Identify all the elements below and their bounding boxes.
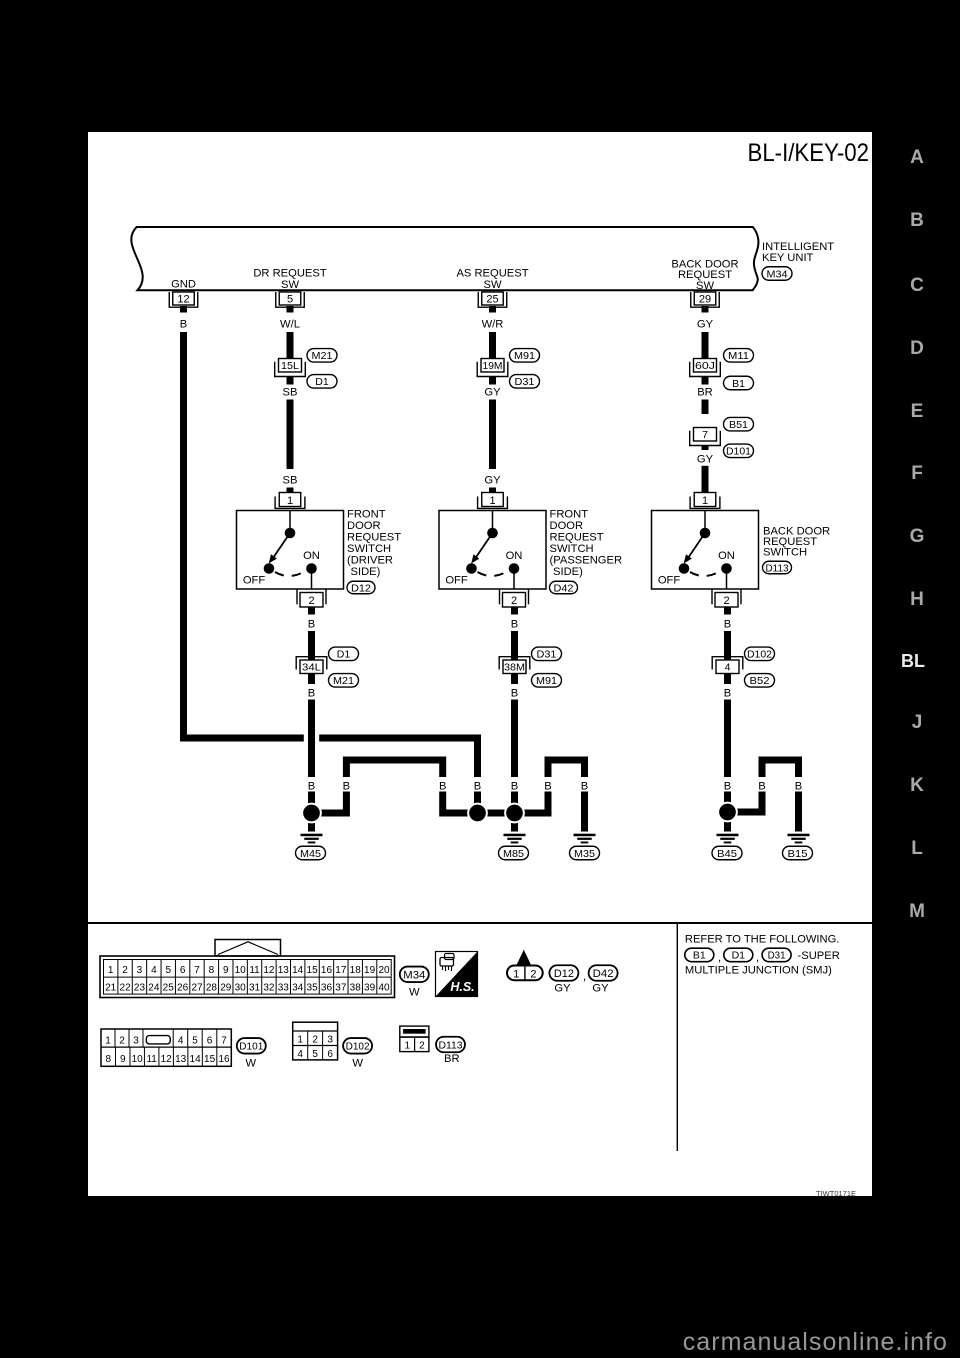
svg-text:BR: BR: [444, 1053, 460, 1065]
svg-text:2: 2: [312, 1035, 318, 1046]
svg-text:D12: D12: [554, 968, 574, 980]
svg-text:2: 2: [122, 965, 128, 976]
svg-text:15L: 15L: [281, 360, 299, 372]
svg-text:GY: GY: [484, 387, 501, 399]
svg-text:25: 25: [486, 293, 498, 305]
svg-text:B1: B1: [732, 378, 745, 390]
svg-text:D101: D101: [239, 1041, 263, 1053]
svg-text:25: 25: [163, 983, 175, 994]
svg-text:INTELLIGENT: INTELLIGENT: [762, 241, 834, 253]
svg-text:14: 14: [292, 965, 304, 976]
svg-text:TIWT0171E: TIWT0171E: [816, 1189, 856, 1196]
svg-text:DOOR: DOOR: [347, 520, 381, 532]
svg-text:9: 9: [120, 1054, 126, 1065]
svg-text:12: 12: [177, 293, 189, 305]
svg-text:M21: M21: [333, 675, 354, 687]
svg-text:1: 1: [702, 495, 708, 507]
svg-text:OFF: OFF: [658, 575, 681, 587]
svg-text:34: 34: [292, 983, 304, 994]
svg-text:15: 15: [204, 1054, 216, 1065]
svg-text:D31: D31: [768, 950, 786, 962]
svg-text:DR REQUEST: DR REQUEST: [253, 268, 327, 280]
svg-text:20: 20: [378, 965, 390, 976]
svg-text:2: 2: [511, 595, 517, 607]
svg-text:M34: M34: [767, 268, 788, 280]
svg-text:B: B: [724, 687, 731, 699]
svg-text:W: W: [352, 1058, 363, 1070]
svg-text:29: 29: [220, 983, 232, 994]
svg-text:M21: M21: [312, 350, 333, 362]
svg-text:33: 33: [278, 983, 290, 994]
svg-text:,: ,: [583, 969, 586, 983]
svg-text:2: 2: [119, 1036, 125, 1047]
svg-text:12: 12: [263, 965, 275, 976]
svg-text:D1: D1: [337, 649, 351, 661]
svg-text:23: 23: [134, 983, 146, 994]
svg-text:11: 11: [249, 965, 260, 976]
svg-text:1: 1: [108, 965, 114, 976]
svg-text:11: 11: [146, 1054, 157, 1065]
svg-text:1: 1: [287, 495, 293, 507]
svg-text:17: 17: [335, 965, 347, 976]
svg-text:5: 5: [192, 1036, 198, 1047]
svg-text:B52: B52: [750, 675, 770, 687]
svg-text:5: 5: [165, 965, 171, 976]
svg-text:GY: GY: [697, 319, 714, 331]
svg-text:GY: GY: [697, 453, 714, 465]
svg-text:SW: SW: [696, 280, 714, 292]
svg-text:9: 9: [223, 965, 229, 976]
svg-text:2: 2: [530, 968, 536, 980]
svg-text:REFER TO THE FOLLOWING.: REFER TO THE FOLLOWING.: [685, 933, 840, 945]
svg-text:B: B: [724, 781, 731, 793]
svg-text:2: 2: [419, 1041, 425, 1052]
svg-text:4: 4: [151, 965, 157, 976]
svg-text:60J: 60J: [695, 360, 715, 372]
svg-text:37: 37: [335, 983, 347, 994]
svg-text:GND: GND: [171, 279, 196, 291]
svg-text:D42: D42: [554, 582, 574, 594]
svg-text:B1: B1: [693, 950, 706, 962]
svg-text:DOOR: DOOR: [550, 520, 584, 532]
svg-text:13: 13: [278, 965, 290, 976]
svg-text:34L: 34L: [302, 661, 321, 673]
svg-text:REQUEST: REQUEST: [550, 532, 604, 544]
svg-text:SB: SB: [283, 387, 298, 399]
svg-text:OFF: OFF: [243, 575, 266, 587]
svg-text:SIDE): SIDE): [351, 566, 381, 578]
svg-text:BL-I/KEY-02: BL-I/KEY-02: [748, 139, 870, 167]
svg-text:B: B: [308, 687, 315, 699]
svg-text:15: 15: [307, 965, 319, 976]
svg-text:AS REQUEST: AS REQUEST: [456, 268, 528, 280]
svg-text:36: 36: [321, 983, 333, 994]
svg-text:1: 1: [489, 495, 495, 507]
svg-text:W/L: W/L: [280, 319, 300, 331]
svg-text:B: B: [180, 319, 187, 331]
svg-text:REQUEST: REQUEST: [347, 532, 401, 544]
svg-text:38M: 38M: [504, 661, 525, 673]
svg-text:B: B: [511, 687, 518, 699]
svg-text:3: 3: [327, 1035, 333, 1046]
svg-text:3: 3: [137, 965, 143, 976]
svg-text:D42: D42: [593, 968, 614, 980]
svg-text:27: 27: [191, 983, 203, 994]
svg-text:M35: M35: [574, 848, 595, 860]
svg-text:B45: B45: [717, 848, 737, 860]
svg-text:M45: M45: [300, 848, 321, 860]
svg-text:M34: M34: [403, 969, 425, 981]
svg-text:H.S.: H.S.: [450, 980, 474, 994]
svg-text:6: 6: [180, 965, 186, 976]
svg-text:19: 19: [364, 965, 376, 976]
svg-text:SW: SW: [281, 279, 299, 291]
svg-text:ON: ON: [718, 550, 735, 562]
svg-text:SIDE): SIDE): [553, 566, 583, 578]
svg-text:40: 40: [378, 983, 390, 994]
svg-text:3: 3: [133, 1036, 139, 1047]
svg-text:8: 8: [105, 1054, 111, 1065]
svg-text:KEY UNIT: KEY UNIT: [762, 252, 814, 264]
svg-text:B: B: [511, 781, 518, 793]
svg-text:5: 5: [312, 1049, 318, 1060]
svg-text:1: 1: [297, 1035, 303, 1046]
svg-text:16: 16: [321, 965, 333, 976]
svg-text:D31: D31: [537, 649, 557, 661]
svg-text:B: B: [758, 781, 765, 793]
svg-text:GY: GY: [592, 982, 609, 994]
svg-text:18: 18: [350, 965, 362, 976]
svg-text:D1: D1: [315, 376, 329, 388]
svg-text:4: 4: [297, 1049, 303, 1060]
svg-text:B: B: [581, 781, 588, 793]
svg-text:12: 12: [161, 1054, 173, 1065]
svg-text:SWITCH: SWITCH: [347, 543, 391, 555]
svg-text:32: 32: [263, 983, 275, 994]
svg-text:26: 26: [177, 983, 189, 994]
svg-text:W: W: [246, 1058, 257, 1070]
svg-text:GY: GY: [484, 474, 501, 486]
svg-text:D113: D113: [439, 1039, 463, 1051]
svg-text:SWITCH: SWITCH: [550, 543, 594, 555]
svg-text:MULTIPLE JUNCTION (SMJ): MULTIPLE JUNCTION (SMJ): [685, 965, 832, 977]
svg-text:W/R: W/R: [482, 319, 504, 331]
svg-text:2: 2: [723, 595, 729, 607]
svg-text:24: 24: [148, 983, 160, 994]
svg-text:B: B: [343, 781, 350, 793]
svg-text:7: 7: [194, 965, 200, 976]
svg-text:B: B: [724, 618, 731, 630]
svg-text:ON: ON: [506, 550, 523, 562]
svg-text:M85: M85: [503, 848, 524, 860]
svg-text:21: 21: [105, 983, 117, 994]
svg-text:14: 14: [190, 1054, 202, 1065]
svg-text:SB: SB: [283, 474, 298, 486]
svg-text:SW: SW: [483, 279, 501, 291]
svg-text:5: 5: [287, 293, 293, 305]
svg-text:4: 4: [178, 1036, 184, 1047]
svg-text:-SUPER: -SUPER: [798, 950, 840, 962]
svg-text:16: 16: [218, 1054, 230, 1065]
svg-text:10: 10: [132, 1054, 144, 1065]
svg-text:D102: D102: [747, 649, 772, 661]
svg-text:B: B: [308, 781, 315, 793]
svg-text:GY: GY: [554, 982, 571, 994]
svg-text:FRONT: FRONT: [347, 509, 386, 521]
svg-text:M11: M11: [728, 350, 749, 362]
svg-text:D31: D31: [515, 376, 535, 388]
svg-text:6: 6: [327, 1049, 333, 1060]
svg-text:W: W: [409, 987, 420, 999]
svg-text:,: ,: [756, 950, 759, 964]
svg-text:B: B: [474, 781, 481, 793]
svg-text:(DRIVER: (DRIVER: [347, 554, 393, 566]
svg-text:28: 28: [206, 983, 218, 994]
svg-text:30: 30: [235, 983, 247, 994]
svg-text:D1: D1: [732, 950, 746, 962]
svg-text:39: 39: [364, 983, 376, 994]
svg-text:ON: ON: [303, 550, 320, 562]
svg-text:6: 6: [207, 1036, 213, 1047]
svg-text:1: 1: [405, 1041, 411, 1052]
svg-text:B: B: [308, 618, 315, 630]
svg-text:D101: D101: [726, 446, 751, 458]
svg-text:M91: M91: [514, 350, 535, 362]
svg-text:,: ,: [718, 950, 721, 964]
svg-text:29: 29: [699, 293, 711, 305]
svg-text:B51: B51: [729, 419, 748, 431]
svg-text:M91: M91: [536, 675, 557, 687]
svg-text:FRONT: FRONT: [550, 509, 589, 521]
svg-text:D113: D113: [766, 562, 789, 574]
svg-text:(PASSENGER: (PASSENGER: [550, 554, 623, 566]
svg-text:8: 8: [209, 965, 215, 976]
svg-text:B: B: [439, 781, 446, 793]
svg-text:38: 38: [350, 983, 362, 994]
svg-text:B15: B15: [788, 848, 808, 860]
svg-text:2: 2: [308, 595, 314, 607]
svg-text:7: 7: [702, 429, 708, 441]
svg-text:35: 35: [307, 983, 319, 994]
svg-text:22: 22: [120, 983, 132, 994]
svg-text:SWITCH: SWITCH: [763, 547, 807, 559]
svg-text:BR: BR: [697, 387, 713, 399]
svg-text:7: 7: [221, 1036, 227, 1047]
svg-text:B: B: [511, 618, 518, 630]
svg-text:B: B: [795, 781, 802, 793]
svg-text:B: B: [544, 781, 551, 793]
svg-text:1: 1: [105, 1036, 111, 1047]
svg-text:D12: D12: [351, 582, 371, 594]
svg-text:13: 13: [175, 1054, 187, 1065]
svg-text:31: 31: [249, 983, 261, 994]
svg-text:D102: D102: [346, 1041, 370, 1053]
svg-text:1: 1: [513, 968, 519, 980]
svg-text:OFF: OFF: [445, 575, 468, 587]
svg-text:10: 10: [235, 965, 247, 976]
svg-text:4: 4: [725, 661, 731, 673]
svg-text:19M: 19M: [483, 360, 503, 372]
